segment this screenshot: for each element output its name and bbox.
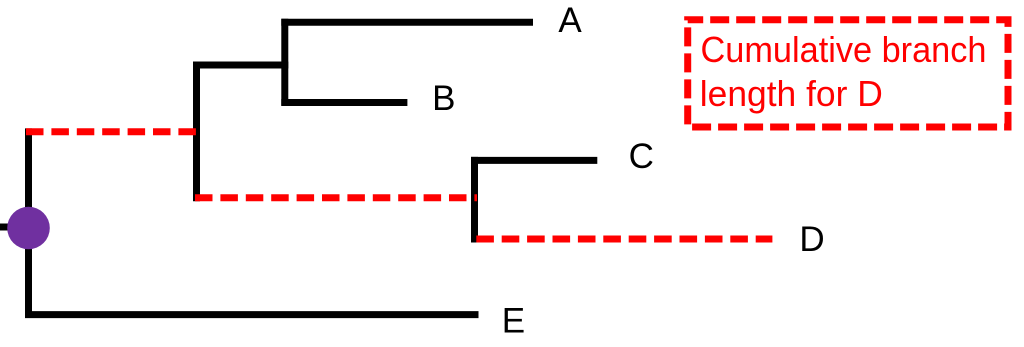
svg-text:Cumulative branch: Cumulative branch	[701, 29, 987, 70]
wire AB vertical	[281, 19, 288, 106]
svg-text:C: C	[629, 137, 654, 176]
wire CD vertical	[471, 157, 478, 243]
wire AB stem horizontal	[193, 62, 288, 69]
svg-text:B: B	[432, 79, 455, 118]
wire red dashed root to node1	[26, 128, 197, 135]
svg-text:A: A	[558, 1, 582, 40]
wire root stub	[0, 224, 11, 231]
annotation box	[688, 20, 1008, 127]
wire internal node 1 vertical	[193, 62, 200, 202]
wire root vertical + E branch	[29, 128, 479, 314]
svg-text:length for D: length for D	[700, 73, 883, 114]
svg-text:E: E	[502, 301, 525, 340]
wire red dashed branch D	[476, 236, 772, 243]
node root circle	[7, 207, 50, 250]
wire branch C	[471, 157, 597, 164]
wire branch B	[281, 99, 407, 106]
wire branch A	[281, 19, 533, 26]
svg-text:D: D	[799, 220, 824, 259]
wire red dashed node1 to CD node	[195, 194, 477, 201]
